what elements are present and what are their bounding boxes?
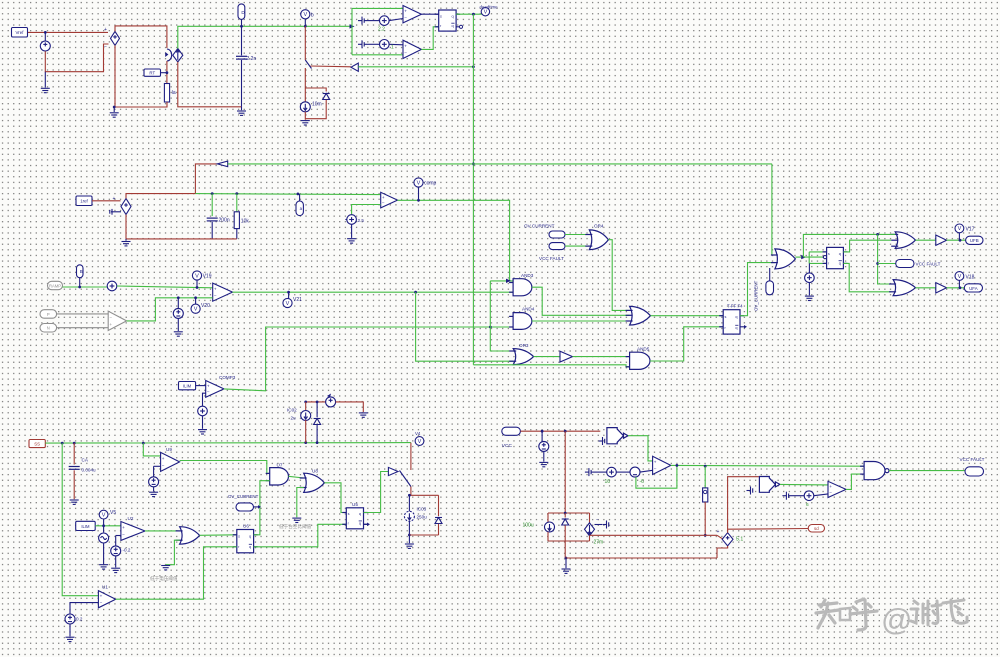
symbol offset 6 — [782, 492, 788, 500]
svg-text:U1: U1 — [102, 585, 108, 590]
wire S5 to U11 + — [117, 286, 213, 288]
svg-text:V: V — [303, 12, 307, 18]
wire diode to SS net — [316, 425, 318, 443]
svg-text:+: + — [404, 44, 407, 49]
current source 100u — [545, 522, 555, 532]
wire diode down leg — [438, 524, 440, 535]
wire V19 stub — [196, 280, 198, 287]
wire deadtime to AND5 — [473, 365, 629, 367]
wire ref stub — [153, 466, 155, 477]
svg-text:+: + — [214, 286, 217, 291]
wire to switch S1 — [304, 26, 306, 60]
U4 mid pin circle — [823, 256, 826, 259]
svg-text:q: q — [735, 315, 737, 319]
svg-text:−: − — [654, 466, 657, 471]
svg-text:10k: 10k — [241, 219, 250, 225]
wire R1 to bottom rail — [114, 102, 167, 107]
svg-text:ILIM: ILIM — [183, 384, 192, 389]
svg-text:COMP3: COMP3 — [219, 375, 236, 380]
wire R2 down — [236, 229, 238, 239]
label VCC FAULT out bubble — [965, 467, 984, 476]
svg-text:+: + — [654, 460, 657, 465]
wire OR5 up/right net — [803, 234, 891, 257]
junction — [194, 296, 197, 299]
wire switch to I2 block — [304, 68, 306, 88]
svg-text:+: + — [100, 594, 103, 599]
wire vertical to gates — [490, 281, 513, 351]
svg-text:5.1: 5.1 — [736, 537, 743, 543]
svg-text:V5: V5 — [110, 510, 116, 516]
wire left branch — [547, 513, 549, 522]
svg-text:−: − — [122, 532, 125, 537]
source V6 — [539, 441, 549, 451]
wire long vertical x=473 — [472, 14, 474, 365]
VCVS E2 — [121, 199, 131, 215]
wire C1 to rail — [241, 60, 243, 107]
svg-text:−: − — [109, 315, 112, 320]
wire diode branch — [564, 513, 566, 518]
wire sine gnd — [103, 544, 105, 565]
wire S3 to U13 + — [389, 43, 403, 46]
svg-text:q: q — [249, 534, 251, 538]
svg-text:s: s — [725, 315, 727, 319]
wire VCC net — [520, 430, 600, 432]
wire S7 gnd — [808, 283, 810, 296]
label ILIM 2 — [76, 521, 96, 530]
svg-text:V: V — [418, 439, 422, 445]
junction — [959, 286, 962, 289]
svg-text:OR4: OR4 — [594, 224, 604, 229]
wire to summer S2 — [364, 20, 379, 22]
svg-text:-6: -6 — [640, 479, 645, 485]
wire E2 minus stub — [116, 211, 122, 213]
ground (S6) — [198, 430, 207, 434]
wire to comparator U12 + — [352, 7, 403, 9]
svg-text:+: + — [717, 529, 720, 535]
wire ref gnd — [153, 487, 155, 492]
source V (IC02 aux) — [326, 397, 336, 407]
svg-text:AND3: AND3 — [521, 273, 534, 278]
wire to ground — [113, 107, 115, 112]
label N — [40, 324, 57, 333]
comparator U1 — [98, 591, 115, 608]
wire OR5 out — [795, 256, 803, 258]
junction — [196, 286, 199, 289]
svg-text:AND5: AND5 — [637, 347, 650, 352]
buffer A1 (left) — [351, 63, 358, 71]
svg-text:OV CURRENT: OV CURRENT — [524, 223, 555, 228]
wire right branch down — [589, 536, 591, 541]
svg-text:RAMP: RAMP — [49, 283, 61, 288]
wire SS net — [45, 442, 411, 445]
wire to AND3 in1 — [490, 280, 513, 282]
junction — [316, 441, 319, 444]
current source I2 10m — [300, 102, 310, 112]
wire riser to buffer A2 — [195, 164, 217, 194]
wire to sine source V1 — [44, 32, 46, 40]
buffer A3 — [560, 351, 573, 362]
wire U12 to FF S — [421, 13, 438, 15]
wire a label stub — [299, 194, 301, 201]
label UFB — [966, 236, 983, 244]
wire COMP3 out net — [224, 327, 513, 391]
label OV_CURRENT vertical — [766, 281, 774, 295]
OR gate OR2 — [626, 306, 651, 325]
wire to U4 R — [809, 262, 826, 264]
label 1ref — [76, 196, 92, 206]
svg-text:comp: comp — [424, 181, 436, 187]
wire y164 down to OR5 — [772, 164, 775, 255]
inverter B2 — [759, 477, 780, 493]
R3 marking — [704, 490, 707, 493]
wire buffer input net — [358, 66, 473, 68]
junction — [44, 31, 47, 34]
svg-text:U6: U6 — [243, 524, 249, 529]
svg-text:−: − — [404, 50, 407, 55]
wire vertical split — [351, 8, 353, 54]
svg-text:100u: 100u — [523, 523, 534, 529]
svg-text:VCC FAULT: VCC FAULT — [916, 262, 941, 267]
wire to IC02 — [305, 402, 307, 411]
wire U6 Qbar to U5 R — [254, 524, 347, 547]
svg-text:2.5: 2.5 — [358, 218, 365, 223]
svg-text:q: q — [735, 326, 737, 330]
wire cap block bottom rail — [548, 540, 590, 542]
wire U4 pin tie — [808, 252, 810, 264]
wire V20 stub — [195, 298, 197, 304]
symbol offset 2.2 — [358, 17, 364, 25]
diode D4 — [562, 519, 569, 525]
wire to IC03 source — [408, 495, 410, 511]
label Vref — [12, 28, 28, 38]
wire diode branch — [316, 402, 318, 417]
label UFA — [964, 284, 982, 292]
junction — [61, 442, 64, 445]
comparator U14 — [653, 456, 671, 474]
svg-text:V20: V20 — [201, 303, 210, 309]
wire CA to ground — [73, 470, 75, 499]
label a — [296, 201, 303, 216]
svg-text:+: + — [829, 484, 832, 489]
junction — [876, 262, 879, 265]
OR gate OR_A — [891, 232, 915, 249]
wire -0.2 gnd — [115, 556, 117, 568]
svg-text:+: + — [109, 322, 112, 327]
wire diamond top to B2 — [728, 477, 759, 533]
symbol hysteresis 2 — [747, 487, 753, 495]
wire tap2 — [590, 534, 593, 536]
ground (V1) — [41, 88, 50, 92]
wire OV_CURRENT stub — [769, 268, 771, 281]
wire S8 to delta — [616, 471, 630, 473]
wire U14 feedback — [636, 465, 677, 488]
svg-text:Vref: Vref — [16, 30, 25, 35]
comparator U12 — [403, 6, 421, 23]
junction — [417, 199, 420, 202]
wire V21 stub — [288, 292, 290, 298]
wire to ground — [44, 72, 46, 88]
source 0.2 — [65, 614, 75, 624]
current sensor arc — [167, 49, 172, 61]
ground (U8) — [292, 518, 301, 522]
voltage probe V21 — [283, 297, 302, 308]
ground (S7) — [805, 296, 814, 300]
wire V17 stub — [958, 233, 960, 240]
ground (IC03) — [405, 544, 414, 548]
voltage probe V19 — [192, 271, 211, 280]
wire left branch down — [547, 532, 549, 541]
summer S9 — [804, 491, 814, 501]
ground (C1) — [237, 111, 246, 115]
wire to V6 — [541, 431, 543, 441]
source (U9 ref) — [149, 477, 159, 487]
wire E2 out — [126, 194, 195, 199]
svg-text:6: 6 — [806, 502, 809, 508]
wire V18 stub — [958, 280, 960, 287]
label OV CURRENT bubble — [549, 231, 565, 238]
wire V5/sine stub — [103, 519, 105, 532]
label ILIM — [179, 382, 196, 390]
OV_CURRENT arrow stub — [254, 506, 259, 508]
svg-text:q: q — [359, 522, 361, 526]
junction — [78, 286, 81, 289]
summer S7 — [805, 273, 815, 283]
symbol offset 16 — [585, 468, 591, 476]
wire 1ref to E2 — [92, 200, 121, 202]
svg-text:OR3: OR3 — [519, 343, 529, 348]
comparator U13 — [403, 40, 421, 58]
svg-text:V18: V18 — [966, 275, 975, 281]
wire to bars — [595, 524, 603, 526]
svg-text:V: V — [102, 512, 106, 518]
flip-flop U4 — [823, 247, 848, 268]
junction — [959, 239, 962, 242]
wire AND3 out — [532, 287, 630, 315]
junction — [564, 512, 567, 515]
junction — [408, 534, 411, 537]
wire tap — [591, 534, 593, 536]
junction — [211, 192, 214, 195]
junction — [102, 524, 105, 527]
svg-text:V: V — [958, 226, 962, 232]
wire RAMP to summer — [63, 286, 108, 288]
summer S8 — [607, 467, 617, 477]
wire ref to U9 - — [154, 465, 161, 467]
junction — [676, 464, 679, 467]
wire to R2 — [236, 194, 238, 212]
comparator U9 — [161, 452, 180, 471]
svg-text:+: + — [404, 9, 407, 14]
svg-text:V: V — [417, 180, 421, 186]
voltage probe V17 — [955, 224, 975, 233]
voltage probe comp — [414, 178, 437, 187]
wire U14 out net — [671, 464, 864, 467]
junction — [316, 401, 319, 404]
svg-text:V: V — [484, 10, 488, 16]
wire to comparator U13 in — [352, 54, 403, 56]
svg-text:U9: U9 — [166, 447, 172, 452]
svg-text:sd: sd — [814, 526, 819, 531]
svg-text:−: − — [207, 390, 210, 395]
wire Vref to E1 + — [27, 31, 108, 33]
svg-text:b: b — [311, 12, 314, 18]
comparator U10 — [381, 192, 398, 208]
wire TFF Q to OR5 — [740, 263, 775, 316]
svg-text:+: + — [382, 195, 385, 200]
wire S4 to ground — [351, 224, 353, 238]
wire ILIM to COMP3 — [196, 385, 206, 387]
AND gate AND3 — [509, 279, 532, 296]
svg-text:T-FF F4: T-FF F4 — [727, 304, 743, 309]
svg-text:@: @ — [881, 602, 912, 637]
svg-text:V: V — [195, 273, 199, 279]
ground (V6) — [539, 462, 548, 466]
OR gate OR5 — [771, 249, 796, 269]
wire U15 to NAND — [846, 474, 860, 489]
symbol hysteresis 1 — [599, 437, 605, 445]
voltage probe V18 — [955, 272, 975, 281]
wire -0.2 stub — [115, 536, 117, 546]
svg-text:+: + — [113, 196, 116, 202]
wire center down — [564, 541, 566, 558]
wire to R3 — [704, 466, 706, 488]
comparator U15 — [828, 481, 846, 497]
wire E2 bottom rail — [126, 215, 237, 239]
wire S9 to U15 - — [814, 494, 828, 496]
junction — [414, 291, 417, 294]
wire U7 to U8 — [289, 476, 304, 478]
diode D1 — [323, 94, 330, 100]
label RAMP — [48, 281, 63, 289]
diode D2 — [314, 419, 321, 425]
wire D1 to bottom — [305, 100, 326, 119]
wire to summer S7 — [808, 263, 810, 272]
ground (cap block) — [562, 569, 571, 573]
label sd — [808, 525, 824, 533]
label VCC FAULT bubble — [549, 243, 565, 250]
svg-text:V17: V17 — [966, 227, 975, 233]
current source IC02 — [301, 411, 311, 421]
symbol bars 27m — [603, 521, 609, 529]
svg-text:V4: V4 — [415, 431, 421, 436]
summer S2 — [380, 16, 390, 26]
junction — [235, 192, 238, 195]
source -0.2 — [111, 546, 121, 556]
svg-text:−: − — [100, 600, 103, 605]
svg-text:U8: U8 — [312, 468, 318, 473]
junction arrow — [801, 255, 806, 259]
wire delta to U14 - — [640, 470, 653, 472]
wire G1 bottom rail — [178, 62, 242, 107]
voltage probe V5 — [99, 510, 116, 519]
wire C2 down — [211, 222, 213, 239]
wire S6 to COMP3 - — [203, 393, 206, 406]
junction — [564, 430, 567, 433]
svg-text:U5: U5 — [352, 502, 358, 507]
wire to OR_B in1 — [878, 234, 892, 284]
wire buffer to AND5 — [573, 356, 630, 358]
wire SS to U9 + — [143, 443, 160, 456]
wire R3 down — [704, 502, 706, 535]
delta circle — [630, 467, 640, 477]
svg-text:VCC FAULT: VCC FAULT — [539, 256, 564, 261]
svg-text:+: + — [104, 27, 107, 33]
OR gate U8 — [300, 473, 325, 492]
ground (S4) — [347, 239, 356, 243]
OR gate U3 — [176, 527, 200, 545]
summer S5 — [107, 281, 117, 291]
wire I2 to ground — [304, 112, 306, 120]
capacitor C1 2.2n — [236, 56, 247, 59]
wire OR_A to buffer — [916, 239, 936, 241]
wire sensor to R1 — [166, 61, 168, 84]
junction — [704, 465, 707, 468]
flip-flop F1 (deadtime) — [435, 10, 460, 31]
wire U4 Q to OR_A — [843, 240, 891, 252]
svg-text:q: q — [359, 512, 361, 516]
wire U5 Q to buffer — [364, 472, 389, 513]
svg-text:q: q — [839, 261, 841, 265]
wire S2 to U12 - — [389, 19, 403, 21]
junction — [565, 557, 568, 560]
svg-text:27m: 27m — [594, 540, 604, 546]
svg-text:−: − — [104, 44, 107, 50]
svg-text:V: V — [958, 274, 962, 280]
wire buffer to UFB — [947, 239, 966, 241]
wire long net y=164 — [228, 163, 772, 165]
junction — [73, 442, 76, 445]
wire V5 to ground — [177, 319, 179, 332]
wire OR3 to buffer — [534, 356, 560, 358]
wire IC03 down — [408, 521, 410, 535]
OR gate OR4 — [585, 230, 608, 250]
NAND gate — [860, 462, 889, 480]
wire IC03 top rail — [409, 494, 438, 496]
junction — [113, 106, 116, 109]
OR gate OR3 — [509, 349, 533, 365]
wire diff amp to U11 - — [127, 298, 213, 321]
resistor R2 10k — [234, 212, 239, 229]
junction arrow — [506, 279, 511, 283]
wire to ground — [408, 535, 410, 543]
svg-text:1ref: 1ref — [80, 199, 88, 204]
wire U3 in2 leg — [166, 540, 180, 565]
svg-text:deadtime: deadtime — [480, 4, 499, 9]
wire U8 in2 to ground — [297, 488, 304, 518]
label D — [238, 4, 245, 20]
svg-text:2.2n: 2.2n — [247, 56, 257, 62]
label OV_CURRENT arrow bubble — [236, 503, 254, 511]
wire OR_B to buffer — [916, 287, 936, 289]
junction — [166, 71, 169, 74]
svg-text:RT: RT — [149, 71, 155, 76]
wire to U4 S — [809, 251, 826, 253]
svg-text:V21: V21 — [293, 297, 302, 303]
wire probe comp stub — [418, 187, 420, 200]
wire V5 stub — [177, 298, 179, 309]
wire into diamond — [717, 535, 722, 538]
junction — [304, 441, 307, 444]
wire to switch S2 — [410, 443, 412, 470]
ground (U9 ref) — [149, 492, 158, 496]
svg-text:N: N — [47, 326, 50, 331]
wire RT stub — [161, 72, 167, 74]
svg-text:U2: U2 — [128, 516, 134, 521]
wire U3 out to U6 S — [200, 534, 237, 537]
svg-text:V: V — [286, 301, 290, 307]
voltage probe deadtime — [481, 8, 489, 16]
svg-text:V: V — [194, 307, 198, 313]
